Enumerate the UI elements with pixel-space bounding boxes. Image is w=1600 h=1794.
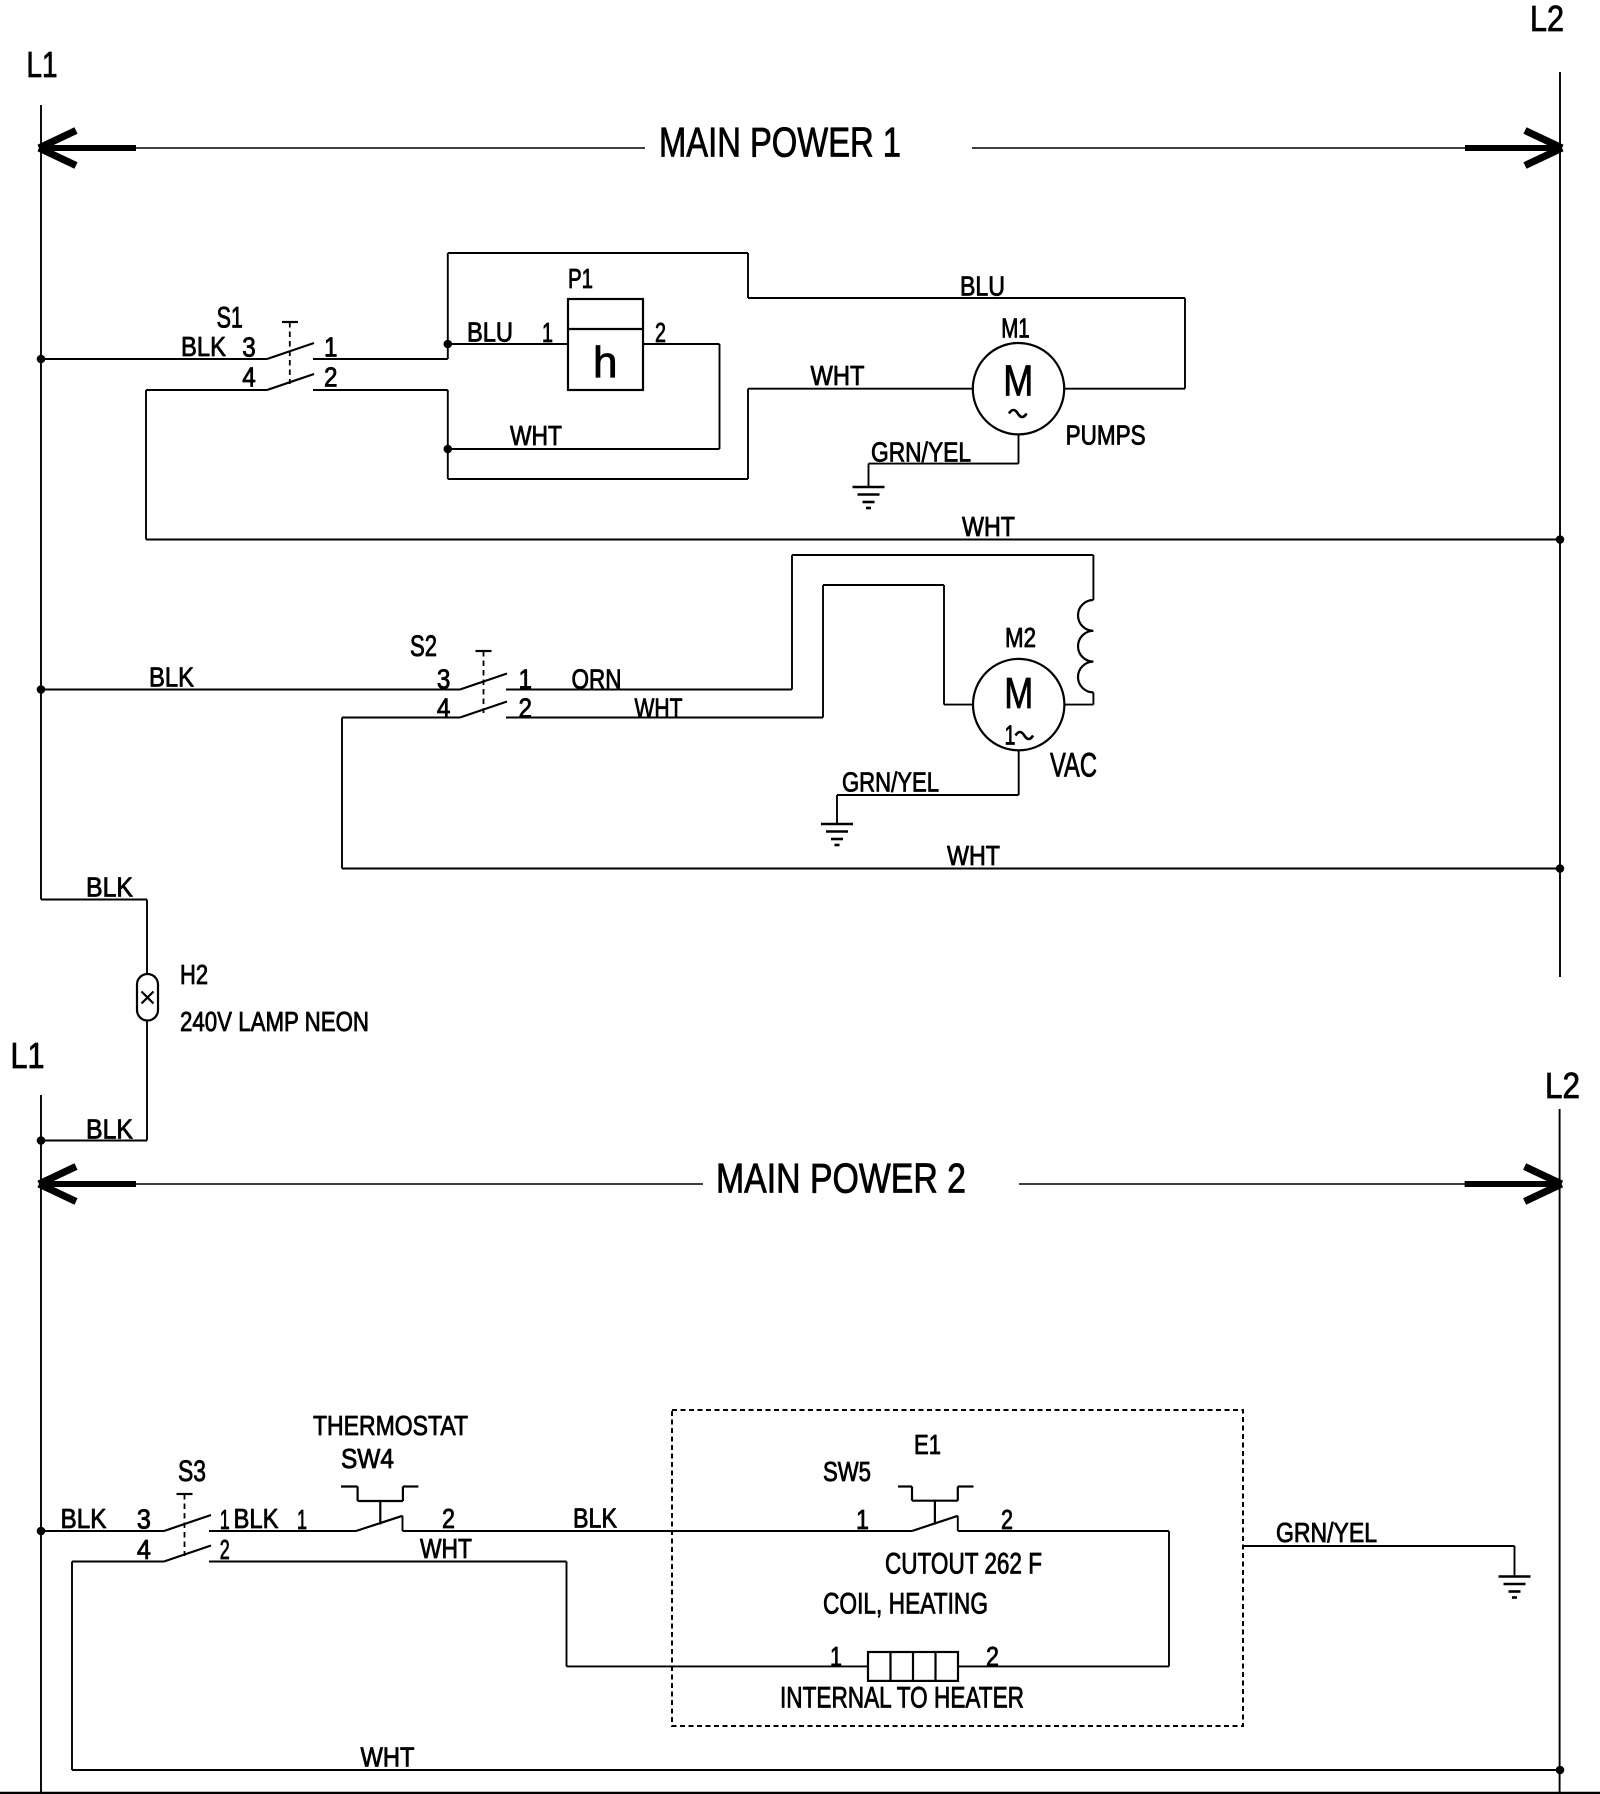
svg-text:1: 1 [297,1504,307,1535]
svg-text:L2: L2 [1530,0,1564,39]
svg-text:BLK: BLK [149,662,194,693]
svg-text:WHT: WHT [635,692,683,723]
svg-text:3: 3 [437,664,451,695]
svg-text:2: 2 [655,317,666,348]
svg-text:L1: L1 [11,1035,45,1076]
svg-text:BLK: BLK [61,1503,107,1534]
svg-text:BLK: BLK [181,331,226,362]
svg-text:h: h [593,338,617,387]
svg-text:MAIN POWER 2: MAIN POWER 2 [716,1155,966,1202]
svg-text:2: 2 [324,362,338,393]
svg-text:GRN/YEL: GRN/YEL [1276,1517,1377,1548]
svg-text:4: 4 [137,1534,151,1565]
svg-text:1: 1 [830,1641,842,1672]
svg-text:WHT: WHT [962,511,1015,542]
svg-text:WHT: WHT [420,1533,472,1564]
svg-text:M2: M2 [1005,622,1036,653]
svg-text:PUMPS: PUMPS [1066,420,1146,451]
svg-text:VAC: VAC [1050,747,1097,785]
svg-text:SW5: SW5 [823,1456,871,1487]
svg-text:4: 4 [437,692,451,723]
svg-text:L1: L1 [27,44,58,85]
svg-text:2: 2 [442,1503,455,1534]
svg-text:M: M [1004,669,1033,718]
svg-text:GRN/YEL: GRN/YEL [842,767,939,798]
svg-text:E1: E1 [914,1429,941,1460]
svg-text:MAIN POWER 1: MAIN POWER 1 [659,118,901,165]
svg-text:1: 1 [324,332,338,363]
svg-text:1: 1 [856,1504,869,1535]
svg-text:BLU: BLU [467,317,513,348]
svg-text:WHT: WHT [510,420,562,451]
svg-text:2: 2 [1001,1504,1013,1535]
svg-text:GRN/YEL: GRN/YEL [871,437,971,468]
svg-text:THERMOSTAT: THERMOSTAT [313,1410,468,1441]
svg-text:WHT: WHT [947,840,1000,871]
svg-text:2: 2 [220,1534,230,1565]
svg-text:ORN: ORN [572,664,622,695]
svg-text:BLK: BLK [86,872,133,903]
svg-text:BLU: BLU [960,271,1005,302]
svg-text:BLK: BLK [573,1503,617,1534]
svg-text:WHT: WHT [361,1742,415,1773]
svg-text:M: M [1003,357,1033,406]
svg-text:L2: L2 [1545,1065,1580,1106]
svg-text:M1: M1 [1001,313,1029,344]
svg-text:S2: S2 [410,630,437,663]
svg-text:S1: S1 [217,302,243,335]
svg-text:3: 3 [137,1504,151,1535]
svg-text:COIL, HEATING: COIL, HEATING [823,1588,988,1621]
svg-text:CUTOUT 262 F: CUTOUT 262 F [885,1548,1042,1581]
svg-text:1: 1 [519,664,533,695]
svg-text:SW4: SW4 [341,1443,394,1474]
svg-text:BLK: BLK [234,1503,279,1534]
svg-text:240V LAMP NEON: 240V LAMP NEON [180,1006,369,1037]
svg-text:4: 4 [242,362,256,393]
svg-text:1: 1 [1005,720,1016,751]
svg-text:INTERNAL TO HEATER: INTERNAL TO HEATER [780,1682,1024,1715]
svg-text:P1: P1 [568,263,593,294]
svg-text:WHT: WHT [811,360,865,391]
svg-text:2: 2 [986,1641,999,1672]
svg-text:1: 1 [220,1504,230,1535]
svg-text:BLK: BLK [86,1114,133,1145]
svg-text:H2: H2 [180,959,208,990]
svg-text:1: 1 [542,317,553,348]
svg-text:3: 3 [242,332,256,363]
svg-text:2: 2 [519,692,533,723]
svg-text:S3: S3 [178,1455,206,1488]
